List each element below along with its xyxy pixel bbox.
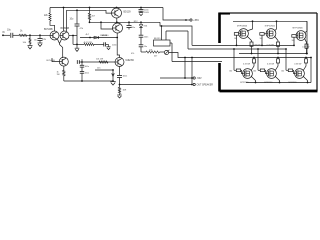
svg-text:0.33 5W: 0.33 5W — [253, 44, 260, 46]
svg-text:47k: 47k — [131, 53, 134, 55]
svg-text:160: 160 — [260, 38, 263, 40]
svg-text:100n: 100n — [144, 37, 148, 39]
svg-text:0.33 5W: 0.33 5W — [302, 47, 309, 49]
svg-text:0.33 5W: 0.33 5W — [267, 44, 274, 46]
svg-text:100n: 100n — [85, 66, 89, 68]
svg-text:IN: IN — [2, 32, 5, 34]
svg-text:160: 160 — [281, 70, 284, 72]
svg-text:MTP50N06: MTP50N06 — [237, 26, 248, 28]
svg-text:160: 160 — [234, 38, 237, 40]
svg-text:-56V: -56V — [197, 77, 202, 80]
svg-text:160: 160 — [229, 70, 232, 72]
svg-text:BD139: BD139 — [154, 38, 161, 40]
svg-text:0.33 5W: 0.33 5W — [267, 63, 274, 65]
svg-text:MJE350: MJE350 — [126, 60, 135, 62]
svg-text:MTP50N06: MTP50N06 — [265, 26, 276, 28]
svg-text:63V: 63V — [42, 39, 46, 41]
svg-text:10u: 10u — [144, 46, 147, 48]
svg-text:160: 160 — [292, 40, 295, 42]
svg-text:1W: 1W — [57, 74, 60, 76]
svg-text:10k 1W: 10k 1W — [96, 58, 103, 60]
svg-text:0.33 5W: 0.33 5W — [294, 63, 301, 65]
svg-text:100V: 100V — [144, 12, 149, 14]
svg-text:4k7 1/2W: 4k7 1/2W — [84, 42, 93, 44]
svg-text:OUT SPEAKER: OUT SPEAKER — [197, 84, 214, 87]
svg-text:+56V: +56V — [193, 19, 199, 22]
svg-text:100n: 100n — [85, 72, 89, 74]
svg-text:1N4148: 1N4148 — [100, 35, 108, 37]
svg-text:0.33 5W: 0.33 5W — [243, 63, 250, 65]
svg-text:BD139: BD139 — [124, 12, 132, 14]
svg-text:BC546B: BC546B — [44, 29, 53, 31]
svg-text:160: 160 — [253, 70, 256, 72]
svg-text:10R: 10R — [123, 89, 127, 91]
svg-text:MTP50N06: MTP50N06 — [293, 27, 304, 29]
svg-text:BC546B: BC546B — [61, 28, 70, 30]
